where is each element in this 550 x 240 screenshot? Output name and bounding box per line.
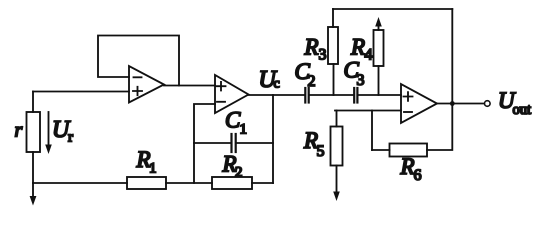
svg-text:5: 5: [317, 143, 325, 160]
resistor R1: [127, 177, 166, 189]
label R3: [304, 35, 327, 64]
wire: U1 output to U2 non-inverting input: [164, 85, 215, 87]
wire: C1 branch left segment: [194, 142, 231, 144]
power arrow above R4 (pointing up): [375, 17, 382, 30]
svg-text:6: 6: [414, 167, 422, 184]
label R5: [303, 128, 325, 160]
arrow Ur (voltage across r, pointing down): [45, 112, 52, 154]
resistor r: [27, 112, 41, 152]
node Uc label: [259, 67, 280, 93]
svg-text:R: R: [304, 35, 319, 60]
wire: R6 left lead: [372, 149, 390, 151]
label R1: [136, 147, 157, 177]
label R4: [350, 35, 373, 64]
wire: R3 top lead: [332, 9, 334, 27]
label Ur: [52, 117, 73, 146]
svg-text:4: 4: [365, 47, 373, 64]
wire: U1 feedback loop (output to inverting input): [98, 36, 179, 86]
wire: C3 to U3 non-inverting input (junction with R4 lead): [359, 94, 401, 96]
op-amp U1 (voltage follower): [129, 66, 164, 103]
wire: R5 top lead: [336, 111, 338, 127]
svg-text:c: c: [274, 77, 280, 92]
capacitor C2: [305, 88, 308, 103]
resistor R6: [390, 144, 428, 157]
resistor R4: [374, 30, 384, 66]
wire: input branch top horizontal to U1 non-inverting input: [33, 91, 129, 93]
ground arrow (left reference, pointing down): [30, 183, 37, 206]
wire: U2 output to C2: [249, 94, 305, 96]
wire: C2 to C3 (junction with R3 lead): [310, 94, 353, 96]
label C1: [225, 108, 247, 138]
svg-text:2: 2: [308, 73, 316, 90]
wire: R6 right lead up to output node: [427, 9, 452, 150]
svg-text:1: 1: [240, 122, 248, 138]
wire: R4 bottom lead: [378, 66, 380, 95]
wire: inverting row down to R6 row: [371, 111, 373, 151]
wire: bottom row right of R2: [252, 182, 273, 184]
label R2: [222, 152, 243, 181]
wire: top feedback wire from R3 to output node: [333, 8, 452, 10]
label Uout: [498, 88, 531, 118]
svg-text:R: R: [350, 35, 365, 60]
svg-text:r: r: [15, 120, 23, 142]
svg-text:r: r: [68, 130, 73, 146]
svg-text:2: 2: [235, 165, 243, 181]
svg-text:out: out: [513, 102, 532, 118]
wire: C1 branch right segment: [237, 142, 273, 144]
wire: bottom row from ground branch to R1: [33, 182, 127, 184]
label R6: [400, 154, 422, 184]
label C2: [295, 59, 316, 90]
op-amp U3: [401, 84, 437, 123]
wire: R3 bottom lead: [333, 64, 335, 95]
wire: input branch vertical upper segment: [32, 92, 34, 113]
capacitor C3: [354, 88, 357, 103]
svg-text:1: 1: [149, 161, 157, 177]
resistor R2: [212, 177, 252, 189]
wire: U3 output to terminal: [437, 103, 485, 105]
svg-text:R: R: [400, 154, 415, 179]
op-amp U2: [215, 75, 249, 113]
wire: input branch vertical lower segment: [32, 152, 34, 183]
svg-text:3: 3: [319, 47, 327, 64]
wire: bottom row between R1 and R2 (junction to U2 inverting net): [166, 182, 212, 184]
svg-text:3: 3: [357, 72, 365, 89]
wire: U3 inverting input row: [335, 110, 401, 112]
resistor R3: [328, 27, 338, 64]
node: output junction dot: [450, 101, 455, 106]
negative supply arrow below R5 (pointing down): [333, 166, 340, 202]
label C3: [344, 58, 365, 90]
wire: U2 inverting input lead left and down: [194, 104, 215, 183]
wire: vertical from Uc node down to feedback branches: [272, 95, 274, 183]
terminal: output circle: [485, 101, 491, 107]
capacitor C1: [232, 134, 236, 152]
resistor R5: [331, 127, 343, 166]
